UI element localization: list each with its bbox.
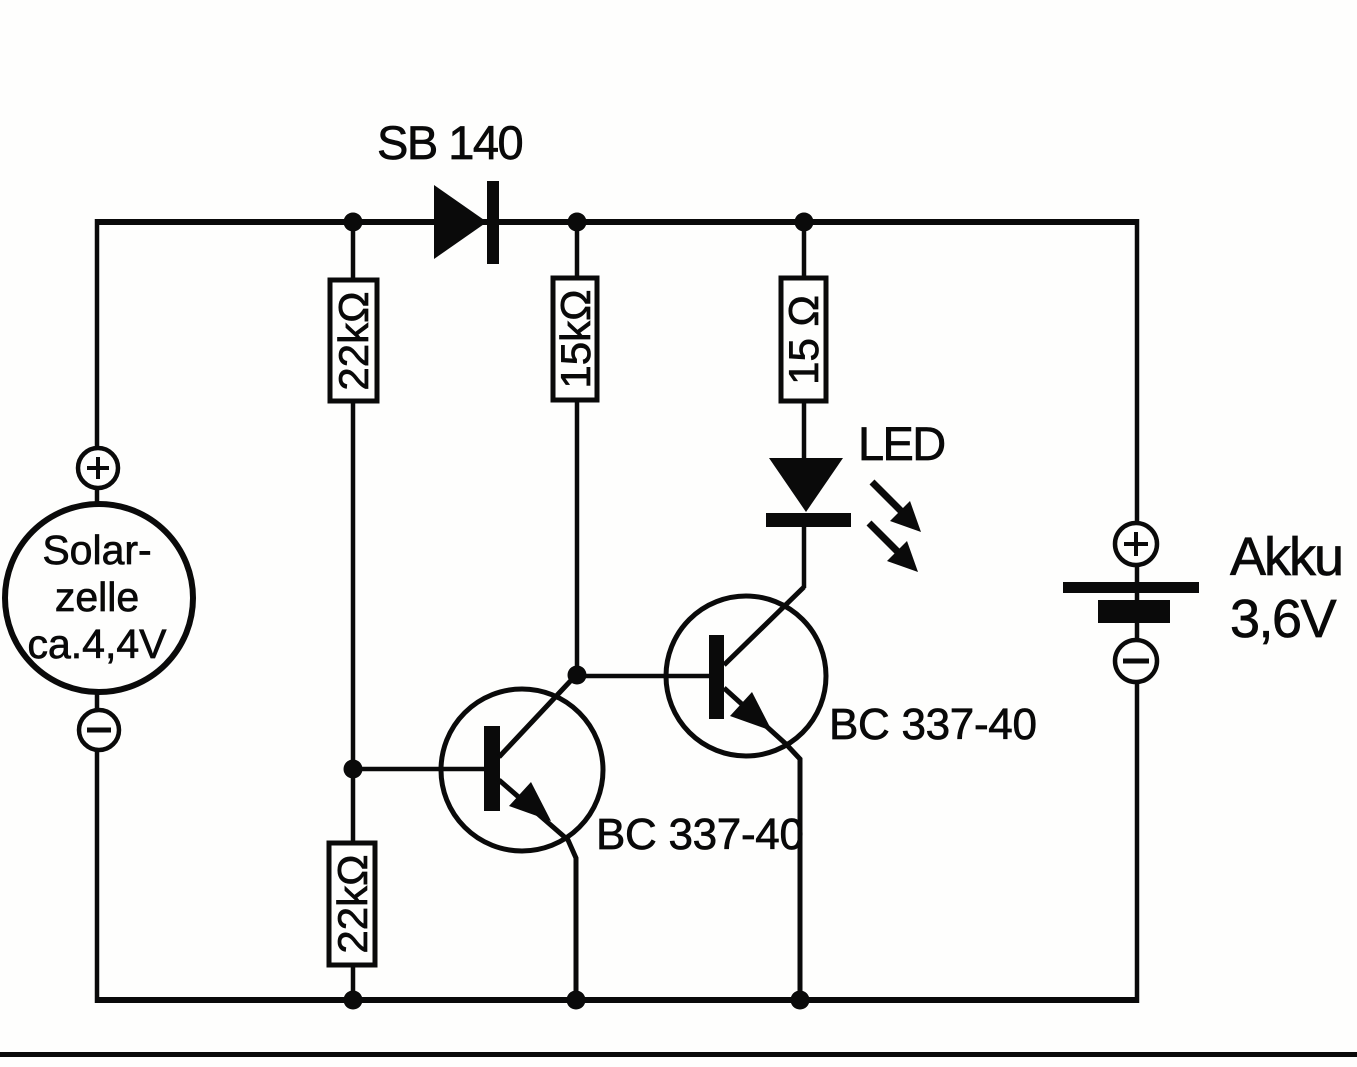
svg-text:zelle: zelle: [55, 574, 139, 620]
wire R3 to LED anode: [802, 401, 807, 461]
diode D1 SB140 triangle (anode): [434, 185, 487, 259]
wire top rail (solar + to battery +): [97, 219, 1137, 225]
wire base of Q1 (node B to base bar): [353, 767, 488, 772]
battery B1 plus sign: [1124, 532, 1148, 556]
junction node B (22k divider / Q1 base): [344, 760, 363, 779]
junction node (bottom, Q1 emitter): [567, 991, 586, 1010]
solar cell plus terminal circle: [78, 448, 118, 488]
transistor Q1 base lead inside circle: [441, 767, 486, 772]
solar cell minus sign: [87, 728, 111, 733]
transistor Q1 collector diagonal to node C: [499, 674, 577, 757]
wire left vertical (solar cell branch): [95, 219, 100, 1003]
LED light arrow 1 head: [890, 501, 921, 532]
battery B1 plus terminal circle: [1115, 523, 1157, 565]
resistor R1 22k box: [330, 280, 377, 401]
svg-text:3,6V: 3,6V: [1230, 589, 1337, 649]
svg-text:22kΩ: 22kΩ: [329, 854, 376, 953]
page rule at bottom of scan: [0, 1052, 1357, 1057]
wire 22k lower resistor to bottom rail: [351, 965, 356, 1000]
wire LED cathode down to Q2 collector bend: [802, 524, 807, 588]
transistor Q2 emitter diagonal: [724, 688, 800, 1000]
wire R2 15k branch upper: [575, 222, 580, 280]
wire R1 bottom to node B: [351, 400, 356, 769]
junction node A (top, 22k): [344, 213, 363, 232]
wire R2 15k bottom to node C: [575, 400, 580, 675]
junction node (top, 15k): [568, 213, 587, 232]
battery B1 minus terminal circle: [1115, 640, 1157, 682]
transistor Q1 body circle: [441, 689, 603, 851]
svg-text:BC 337-40: BC 337-40: [596, 810, 804, 859]
junction node (top, 15 ohm): [795, 213, 814, 232]
transistor Q2 emitter arrow: [730, 692, 772, 731]
transistor Q2 base bar: [709, 635, 724, 719]
solar cell minus terminal circle: [79, 710, 119, 750]
junction node (bottom, 22k): [344, 991, 363, 1010]
LED D2 triangle: [769, 458, 843, 512]
svg-text:22kΩ: 22kΩ: [330, 291, 377, 390]
LED light arrow 1 shaft: [872, 482, 903, 513]
junction node C (15k / Q1 collector / Q2 base): [568, 666, 587, 685]
svg-text:ca.4,4V: ca.4,4V: [27, 621, 167, 667]
svg-text:Solar-: Solar-: [42, 527, 151, 573]
LED light arrow 2 head: [887, 541, 918, 572]
battery B1 positive plate: [1063, 582, 1199, 593]
wire node C to base of Q2: [577, 674, 712, 679]
svg-text:15 Ω: 15 Ω: [780, 295, 827, 385]
diode D1 cathode bar: [487, 181, 499, 264]
solar cell body circle: [5, 504, 193, 692]
svg-text:15kΩ: 15kΩ: [552, 289, 599, 388]
solar cell plus sign: [87, 457, 109, 479]
svg-text:LED: LED: [858, 417, 945, 470]
transistor Q2 body circle: [666, 596, 826, 756]
resistor R3 15 ohm box: [781, 278, 826, 401]
svg-text:BC 337-40: BC 337-40: [829, 700, 1037, 749]
transistor Q2 base lead inside circle: [664, 674, 711, 679]
transistor Q1 emitter diagonal: [499, 780, 576, 1000]
LED light arrow 2 shaft: [869, 523, 900, 554]
battery B1 negative plate: [1098, 600, 1170, 623]
battery B1 minus sign: [1123, 659, 1149, 664]
wire bottom rail: [97, 997, 1137, 1003]
resistor R4 22k lower box: [329, 843, 375, 965]
wire R1 branch upper (node A to resistor 22k): [351, 222, 356, 280]
resistor R2 15k box: [553, 278, 597, 400]
wire R3 15 ohm branch upper: [802, 222, 807, 280]
transistor Q1 base bar: [484, 726, 500, 811]
LED D2 cathode bar: [766, 513, 851, 527]
junction node (bottom, Q2 emitter): [791, 991, 810, 1010]
svg-text:SB 140: SB 140: [377, 116, 523, 169]
wire node B to 22k lower resistor: [351, 769, 356, 843]
wire right vertical (battery branch): [1135, 219, 1140, 1003]
transistor Q1 emitter arrow: [509, 782, 551, 821]
transistor Q2 collector diagonal from LED wire: [724, 587, 804, 665]
svg-text:Akku: Akku: [1230, 527, 1342, 587]
